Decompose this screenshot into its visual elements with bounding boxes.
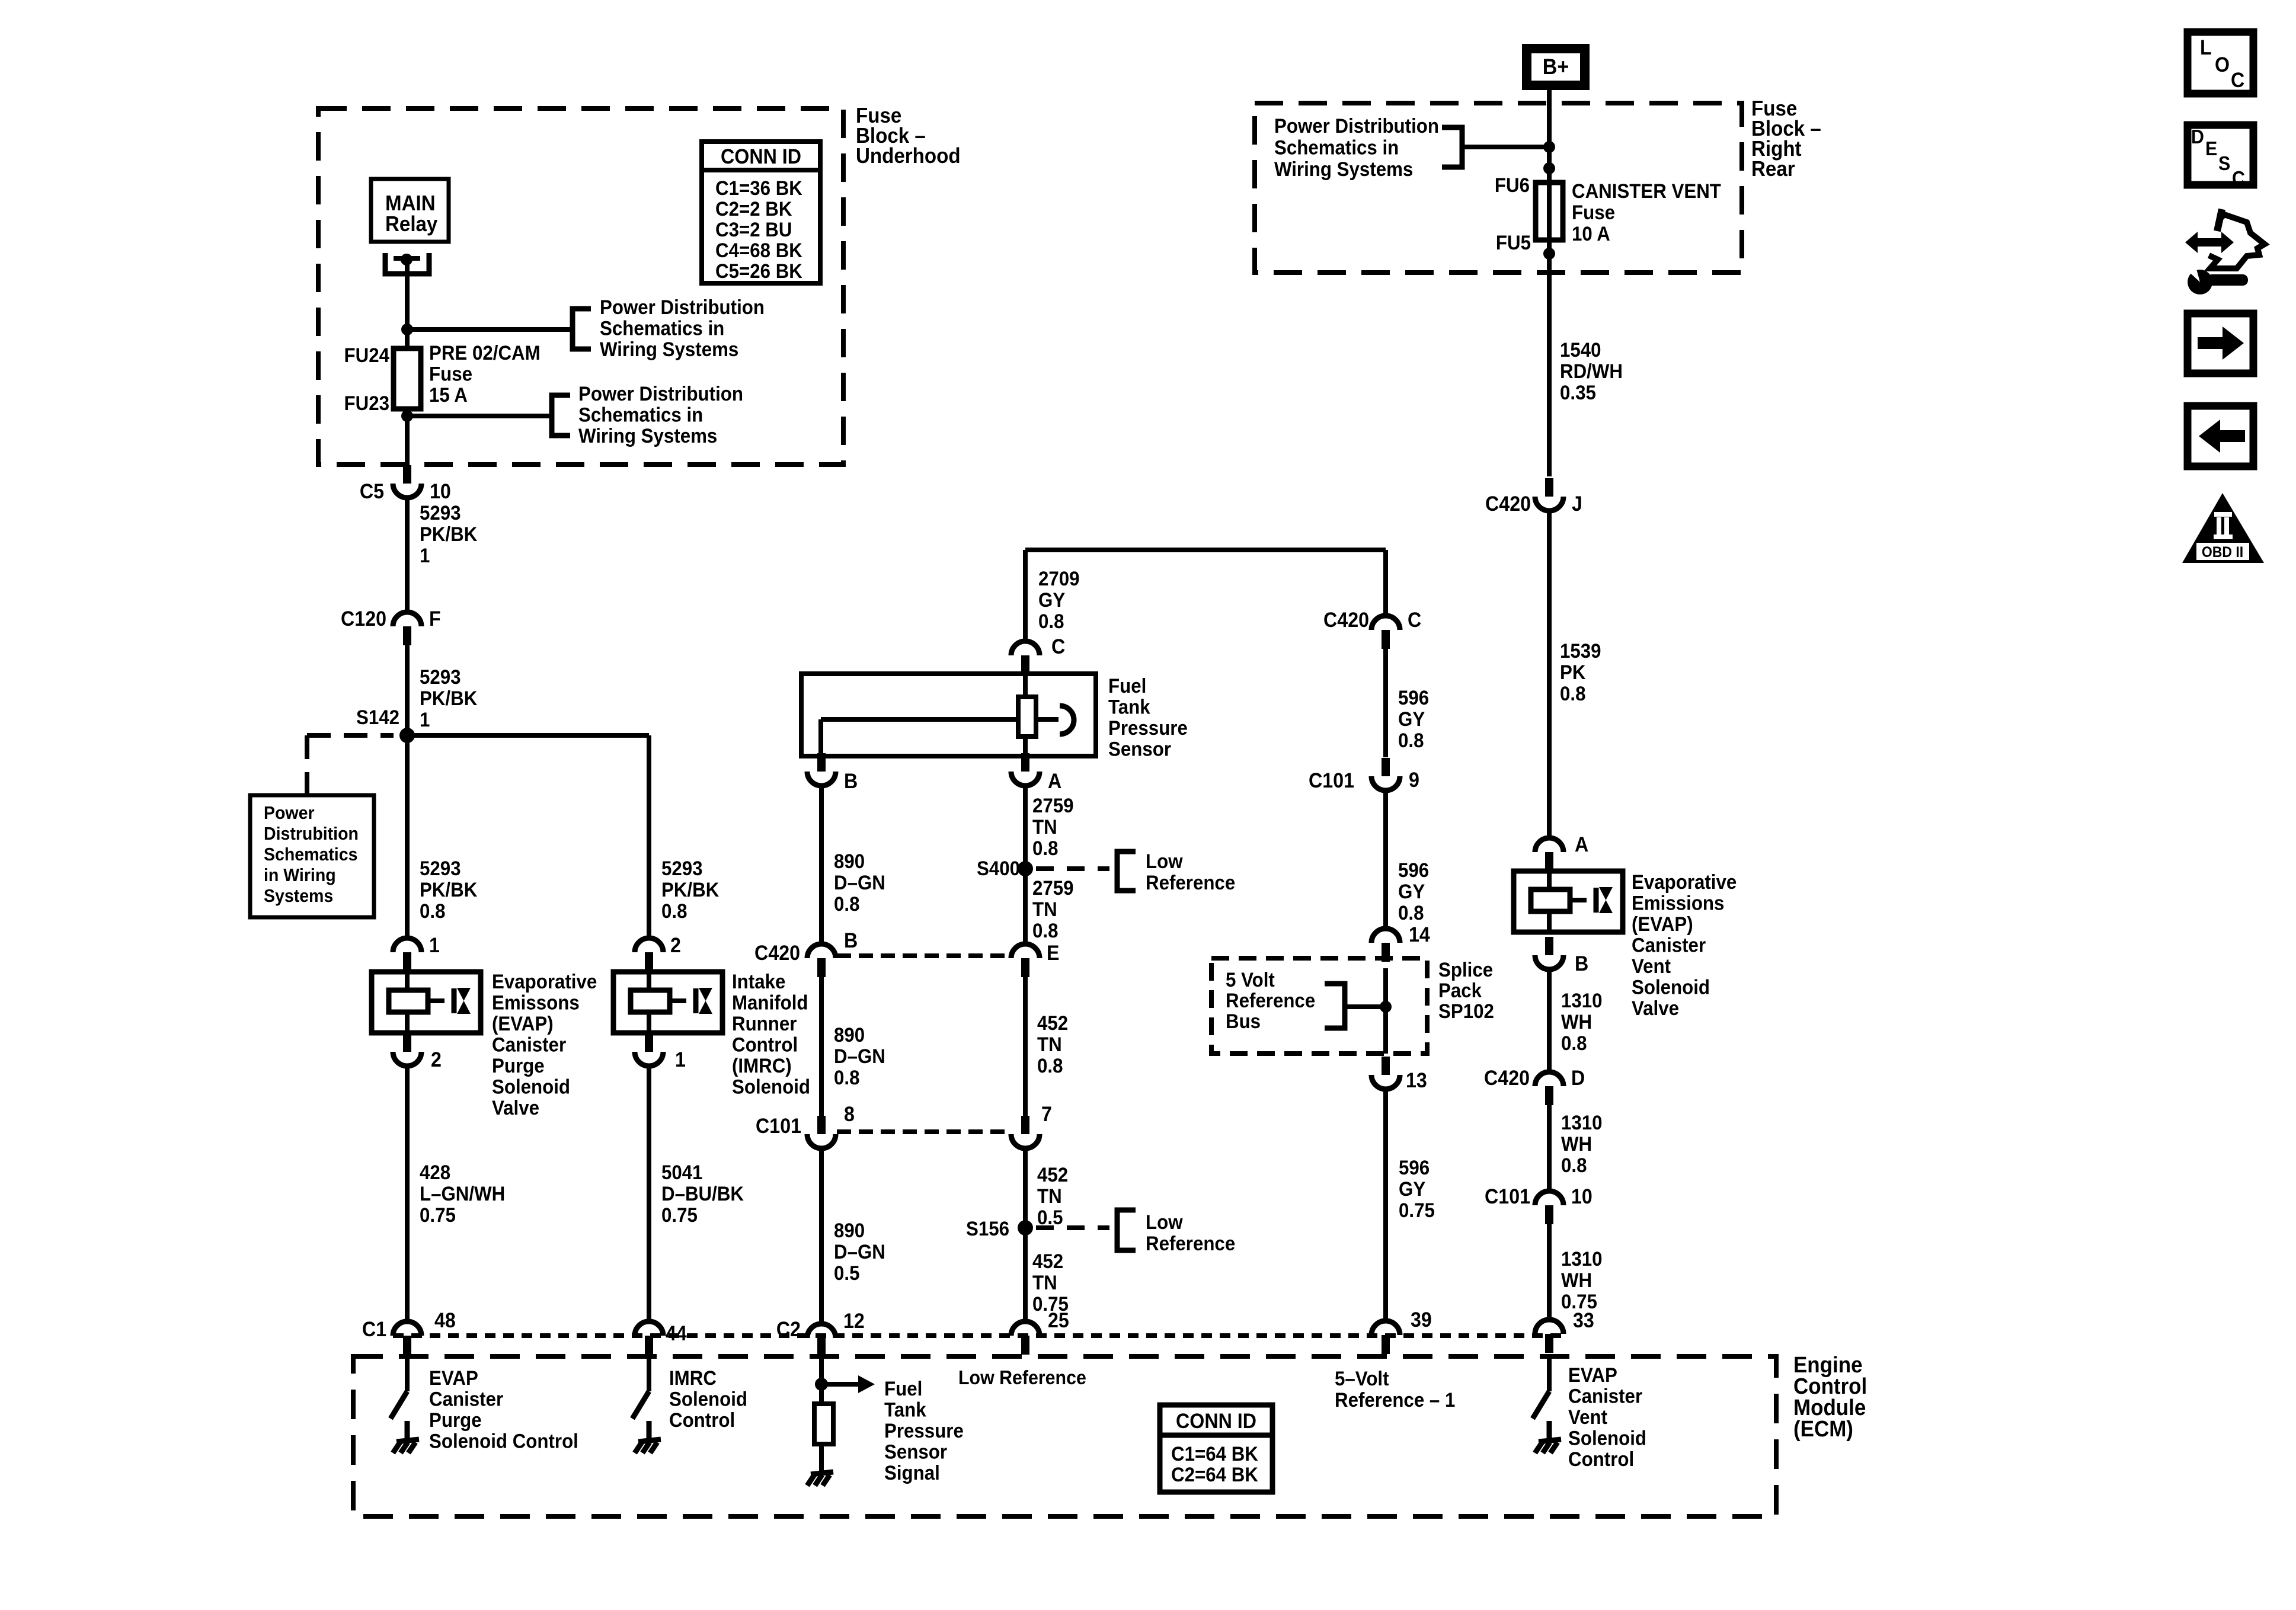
connector C120 pin F <box>393 612 421 626</box>
svg-text:0.8: 0.8 <box>1561 1154 1587 1177</box>
svg-text:0.8: 0.8 <box>1032 837 1058 860</box>
svg-text:Solenoid: Solenoid <box>732 1075 810 1098</box>
svg-text:C: C <box>1408 609 1421 632</box>
svg-text:CONN ID: CONN ID <box>721 146 801 169</box>
callout bracket 2 <box>552 395 570 436</box>
svg-text:PRE 02/CAM: PRE 02/CAM <box>429 341 541 364</box>
svg-text:0.35: 0.35 <box>1560 381 1596 404</box>
svg-text:L: L <box>2200 37 2212 60</box>
svg-text:0.8: 0.8 <box>1560 682 1585 705</box>
svg-text:FU5: FU5 <box>1496 231 1531 254</box>
svg-text:CANISTER VENT: CANISTER VENT <box>1572 180 1721 203</box>
connector FTPS pin C <box>1011 641 1040 655</box>
connector C420 pin C <box>1371 616 1400 630</box>
svg-text:Schematics: Schematics <box>264 844 357 865</box>
svg-text:5–Volt: 5–Volt <box>1335 1367 1389 1390</box>
MAIN relay box <box>371 179 449 242</box>
svg-text:Bus: Bus <box>1226 1010 1261 1033</box>
svg-text:D–BU/BK: D–BU/BK <box>661 1182 744 1205</box>
fuel tank pressure sensor box <box>801 674 1096 756</box>
svg-text:0.8: 0.8 <box>834 1066 859 1089</box>
svg-text:Evaporative: Evaporative <box>1632 870 1737 894</box>
svg-text:WH: WH <box>1561 1269 1592 1292</box>
svg-text:EVAP: EVAP <box>429 1366 478 1390</box>
svg-text:452: 452 <box>1037 1012 1068 1035</box>
svg-text:C: C <box>1051 636 1065 659</box>
wire: relay to fuse FU24 <box>405 260 410 350</box>
svg-text:GY: GY <box>1399 1177 1425 1201</box>
svg-text:Pressure: Pressure <box>884 1419 964 1442</box>
svg-text:Tank: Tank <box>884 1398 926 1421</box>
connector C2 pin 12 <box>807 1324 836 1338</box>
svg-text:(EVAP): (EVAP) <box>492 1012 554 1035</box>
svg-text:TN: TN <box>1032 1271 1057 1294</box>
svg-text:Reference: Reference <box>1226 989 1315 1012</box>
EVAP canister vent solenoid valve <box>1514 871 1623 932</box>
svg-text:C4=68 BK: C4=68 BK <box>715 239 802 262</box>
wire down to FTPS C <box>1023 550 1028 641</box>
svg-text:C1=36 BK: C1=36 BK <box>715 177 802 200</box>
connector pin 39 <box>1371 1321 1400 1335</box>
svg-text:C120: C120 <box>341 608 386 631</box>
svg-text:D: D <box>1571 1067 1585 1090</box>
svg-text:PK/BK: PK/BK <box>420 878 478 901</box>
svg-text:0.8: 0.8 <box>1398 901 1424 924</box>
ECM dashed box <box>353 1356 1776 1516</box>
junction dot 1 <box>1543 141 1555 153</box>
svg-text:14: 14 <box>1409 924 1430 947</box>
svg-text:Runner: Runner <box>732 1012 797 1035</box>
svg-text:Schematics in: Schematics in <box>600 316 724 340</box>
svg-text:5293: 5293 <box>420 665 461 689</box>
svg-text:Wiring Systems: Wiring Systems <box>600 338 738 361</box>
svg-text:Sensor: Sensor <box>1108 737 1171 760</box>
svg-text:C101: C101 <box>1485 1186 1530 1209</box>
connector FTPS pin B <box>817 753 826 772</box>
svg-text:IMRC: IMRC <box>669 1366 717 1390</box>
wire resistor to ground <box>819 1444 824 1472</box>
svg-text:596: 596 <box>1399 1156 1430 1179</box>
svg-text:Signal: Signal <box>884 1461 940 1484</box>
wire C101 8 to C2 12 <box>819 1148 824 1324</box>
connector purge solenoid pin 1 <box>393 938 421 952</box>
svg-text:FU24: FU24 <box>344 344 389 367</box>
fuse PRE O2/CAM <box>405 348 410 409</box>
svg-text:Relay: Relay <box>385 213 438 236</box>
svg-text:O: O <box>2215 54 2230 77</box>
svg-text:RD/WH: RD/WH <box>1560 360 1623 383</box>
wire IMRC to ECM 44 <box>647 1066 651 1322</box>
svg-text:5041: 5041 <box>661 1161 703 1184</box>
svg-text:5293: 5293 <box>420 501 461 524</box>
svg-text:J: J <box>1572 493 1582 516</box>
ECM driver switch EVAP vent <box>1547 1357 1552 1391</box>
svg-text:Power Distribution: Power Distribution <box>600 296 765 319</box>
svg-text:PK/BK: PK/BK <box>661 878 720 901</box>
svg-text:TN: TN <box>1032 815 1057 838</box>
svg-text:1310: 1310 <box>1561 989 1603 1012</box>
connector IMRC solenoid pin 1 <box>645 1033 653 1052</box>
svg-text:890: 890 <box>834 1219 865 1242</box>
svg-text:D–GN: D–GN <box>834 871 885 894</box>
dashed link C101 8-7 <box>837 1129 1010 1134</box>
svg-text:0.8: 0.8 <box>1032 919 1058 942</box>
svg-text:9: 9 <box>1409 769 1419 792</box>
connector vent solenoid pin B <box>1545 937 1553 955</box>
svg-text:Splice: Splice <box>1438 958 1493 981</box>
ECM driver switch EVAP purge <box>405 1357 410 1391</box>
wire E to 7 <box>1023 977 1028 1116</box>
svg-text:Solenoid: Solenoid <box>492 1075 570 1098</box>
IMRC solenoid <box>613 972 722 1033</box>
svg-text:OBD II: OBD II <box>2202 544 2243 561</box>
svg-text:F: F <box>429 608 441 631</box>
svg-text:SP102: SP102 <box>1438 1000 1494 1023</box>
svg-text:1: 1 <box>420 544 430 567</box>
svg-text:Fuel: Fuel <box>1108 674 1146 697</box>
svg-text:12: 12 <box>843 1310 865 1333</box>
wire stub 2 <box>407 414 552 418</box>
svg-text:D: D <box>2191 126 2204 148</box>
svg-text:C420: C420 <box>1323 609 1369 632</box>
CONN ID table (ECM) <box>1160 1405 1272 1492</box>
icon back arrow box <box>2188 406 2253 466</box>
svg-text:2: 2 <box>431 1049 442 1072</box>
svg-text:S400: S400 <box>977 857 1020 880</box>
svg-text:Power: Power <box>264 803 315 823</box>
wire FU5 to C420 J <box>1547 240 1552 476</box>
svg-text:Canister: Canister <box>492 1033 566 1056</box>
wire top horizontal FTPS-C420 <box>1025 548 1386 552</box>
svg-text:E: E <box>1047 942 1059 965</box>
svg-text:15 A: 15 A <box>429 383 468 406</box>
wire J to EVAP vent solenoid <box>1547 511 1552 838</box>
svg-text:C101: C101 <box>756 1115 801 1138</box>
svg-text:0.8: 0.8 <box>420 900 445 923</box>
svg-text:GY: GY <box>1038 588 1065 612</box>
splice S400 <box>1018 861 1033 876</box>
svg-text:10: 10 <box>430 481 451 504</box>
CONN ID table (underhood) <box>702 142 820 283</box>
svg-text:Valve: Valve <box>1632 997 1679 1020</box>
svg-text:452: 452 <box>1037 1163 1068 1186</box>
svg-text:PK/BK: PK/BK <box>420 523 478 546</box>
svg-text:Control: Control <box>669 1409 735 1432</box>
svg-text:890: 890 <box>834 850 865 873</box>
connector C101 pin 10 <box>1535 1191 1563 1205</box>
svg-text:Evaporative: Evaporative <box>492 970 597 993</box>
svg-text:Underhood: Underhood <box>856 145 961 168</box>
svg-text:0.8: 0.8 <box>1037 1054 1063 1077</box>
connector vent solenoid pin A <box>1535 838 1563 852</box>
svg-text:(IMRC): (IMRC) <box>732 1054 792 1077</box>
wire stub 1 <box>407 327 573 332</box>
svg-text:TN: TN <box>1037 1033 1062 1056</box>
ECM driver switch IMRC <box>647 1357 651 1391</box>
arrow line <box>821 1382 858 1387</box>
svg-text:EVAP: EVAP <box>1568 1363 1617 1387</box>
svg-text:0.8: 0.8 <box>1038 610 1064 633</box>
svg-text:Systems: Systems <box>264 886 333 906</box>
svg-text:596: 596 <box>1398 859 1429 882</box>
svg-text:D–GN: D–GN <box>834 1240 885 1263</box>
junction SP102 <box>1380 1001 1392 1013</box>
svg-text:33: 33 <box>1573 1310 1594 1333</box>
connector pin 33 <box>1535 1320 1563 1334</box>
svg-text:MAIN: MAIN <box>385 192 436 216</box>
svg-text:Emissions: Emissions <box>1632 891 1724 914</box>
svg-text:Reference: Reference <box>1146 871 1235 894</box>
junction arrow <box>815 1378 828 1391</box>
callout bracket right rear <box>1442 127 1462 167</box>
connector pin 25 <box>1011 1321 1040 1336</box>
svg-text:Manifold: Manifold <box>732 991 808 1014</box>
wire FTPS B to C420 B <box>819 786 824 943</box>
svg-text:PK/BK: PK/BK <box>420 687 478 710</box>
svg-text:C420: C420 <box>754 942 800 965</box>
svg-text:Sensor: Sensor <box>884 1440 947 1463</box>
svg-text:Low: Low <box>1146 1211 1183 1234</box>
svg-text:5293: 5293 <box>661 857 703 880</box>
svg-text:(EVAP): (EVAP) <box>1632 913 1693 936</box>
svg-text:Wiring Systems: Wiring Systems <box>1274 158 1413 181</box>
icon LOC box <box>2188 32 2253 94</box>
connector C1 pin 48 <box>393 1321 421 1336</box>
connector C101 pin 9 <box>1382 758 1390 776</box>
svg-text:Low: Low <box>1146 850 1183 873</box>
svg-text:Solenoid: Solenoid <box>669 1387 747 1410</box>
connector C101 pin 8 <box>817 1116 826 1134</box>
svg-text:452: 452 <box>1032 1250 1063 1273</box>
connector IMRC solenoid pin 2 <box>635 938 663 952</box>
svg-text:Purge: Purge <box>429 1409 482 1432</box>
connector C420 pin E <box>1011 944 1040 958</box>
svg-text:0.8: 0.8 <box>1561 1032 1587 1055</box>
svg-text:0.75: 0.75 <box>1399 1199 1435 1222</box>
svg-text:GY: GY <box>1398 708 1425 731</box>
fuse block underhood dashed box <box>318 108 843 465</box>
wire bracket to main <box>1462 145 1549 149</box>
svg-text:2759: 2759 <box>1032 794 1074 817</box>
svg-text:L–GN/WH: L–GN/WH <box>420 1182 505 1205</box>
wire FTPS A to E <box>1023 786 1028 943</box>
wire C101 9 to 14 <box>1383 790 1388 929</box>
svg-text:0.5: 0.5 <box>834 1262 859 1285</box>
svg-text:Fuel: Fuel <box>884 1377 922 1400</box>
wire vent B to C420 D <box>1547 969 1552 1072</box>
svg-text:39: 39 <box>1411 1309 1432 1332</box>
svg-text:(ECM): (ECM) <box>1793 1416 1853 1442</box>
svg-text:C420: C420 <box>1485 493 1531 516</box>
resistor inside ECM <box>814 1404 833 1444</box>
connector pin 44 <box>635 1321 663 1336</box>
wire C420B to C101 8 <box>819 977 824 1116</box>
svg-text:0.8: 0.8 <box>661 900 687 923</box>
svg-text:B: B <box>1575 953 1588 976</box>
connector pin 14 <box>1371 929 1400 943</box>
svg-text:48: 48 <box>434 1310 456 1333</box>
svg-text:WH: WH <box>1561 1132 1592 1156</box>
wire C101 10 to 33 <box>1547 1224 1552 1320</box>
svg-text:C: C <box>2231 69 2244 92</box>
connector pin 13 <box>1382 1057 1390 1075</box>
svg-text:0.8: 0.8 <box>834 892 859 916</box>
connector C101 pin 7 <box>1021 1116 1029 1134</box>
bracket low reference S156 <box>1117 1210 1136 1250</box>
svg-text:0.5: 0.5 <box>1037 1206 1063 1229</box>
wire S142 to IMRC branch <box>407 733 649 738</box>
wire 13 to 39 <box>1383 1089 1388 1321</box>
svg-text:1539: 1539 <box>1560 639 1601 662</box>
splice S142 <box>399 728 415 743</box>
splice S156 <box>1018 1220 1033 1235</box>
svg-text:Power Distribution: Power Distribution <box>578 382 743 405</box>
wire D to C101 10 <box>1547 1105 1552 1191</box>
svg-text:Control: Control <box>1568 1448 1634 1471</box>
connector C420 pin B <box>807 944 836 958</box>
svg-text:0.75: 0.75 <box>420 1204 456 1227</box>
svg-text:S156: S156 <box>966 1217 1009 1240</box>
svg-text:10 A: 10 A <box>1572 222 1610 245</box>
svg-text:1: 1 <box>429 934 440 958</box>
svg-text:13: 13 <box>1406 1070 1427 1093</box>
svg-text:1310: 1310 <box>1561 1247 1603 1270</box>
svg-text:Purge: Purge <box>492 1054 545 1077</box>
svg-text:Reference – 1: Reference – 1 <box>1335 1388 1455 1411</box>
wire B+ to FU6 <box>1547 90 1552 183</box>
svg-text:Canister: Canister <box>1632 933 1706 956</box>
svg-text:Pack: Pack <box>1438 979 1482 1002</box>
svg-text:WH: WH <box>1561 1010 1592 1033</box>
wire fuse to C5 <box>405 409 410 466</box>
svg-text:B: B <box>844 930 858 953</box>
svg-text:2709: 2709 <box>1038 567 1080 590</box>
junction dot below fuse <box>1543 248 1555 260</box>
svg-text:FU6: FU6 <box>1495 174 1530 197</box>
svg-text:25: 25 <box>1048 1310 1069 1333</box>
wire S142 to IMRC solenoid <box>647 735 651 939</box>
svg-text:Valve: Valve <box>492 1096 539 1119</box>
svg-text:C2=2 BK: C2=2 BK <box>715 197 792 220</box>
harness dotted line at ECM connector row <box>393 1333 1563 1338</box>
fuse block right rear dashed box <box>1255 103 1742 273</box>
svg-text:Intake: Intake <box>732 970 785 993</box>
svg-text:8: 8 <box>844 1103 855 1126</box>
bracket low reference S400 <box>1117 852 1136 891</box>
svg-text:Solenoid: Solenoid <box>1568 1426 1646 1449</box>
svg-text:Canister: Canister <box>1568 1384 1642 1407</box>
svg-text:Tank: Tank <box>1108 695 1150 718</box>
wire purge solenoid to ECM 48 <box>405 1066 410 1322</box>
svg-text:Emissons: Emissons <box>492 991 580 1014</box>
icon jumper harness with arrows and wrench <box>2185 232 2234 253</box>
svg-text:C5: C5 <box>360 481 384 504</box>
svg-text:Vent: Vent <box>1632 955 1671 978</box>
svg-text:1310: 1310 <box>1561 1111 1603 1134</box>
svg-text:TN: TN <box>1037 1185 1062 1208</box>
connector C420 pin J <box>1545 478 1553 497</box>
svg-text:D–GN: D–GN <box>834 1045 885 1068</box>
svg-text:C3=2 BU: C3=2 BU <box>715 218 792 241</box>
svg-text:GY: GY <box>1398 880 1425 903</box>
junction to power distribution stub 2 <box>401 410 413 422</box>
connector C5 pin 10 <box>403 465 411 484</box>
svg-text:FU23: FU23 <box>344 392 389 415</box>
wire C5 to C120 <box>405 498 410 612</box>
svg-text:Rear: Rear <box>1751 158 1795 181</box>
dashed stub S142 left <box>307 733 394 738</box>
svg-text:C5=26 BK: C5=26 BK <box>715 260 802 283</box>
fuse CANISTER VENT <box>1536 183 1563 240</box>
svg-text:S142: S142 <box>356 706 399 729</box>
svg-text:Reference: Reference <box>1146 1232 1235 1255</box>
svg-text:Control: Control <box>732 1033 798 1056</box>
svg-text:428: 428 <box>420 1161 450 1184</box>
svg-text:Fuse: Fuse <box>429 362 472 385</box>
dashed stub S156 <box>1036 1225 1109 1230</box>
icon OBD II triangle <box>2182 493 2264 563</box>
svg-text:A: A <box>1575 834 1588 857</box>
svg-text:2: 2 <box>670 934 681 958</box>
wire 7 to 25 <box>1023 1148 1028 1321</box>
svg-text:TN: TN <box>1032 898 1057 921</box>
svg-text:Fuse: Fuse <box>1572 201 1615 224</box>
connector FTPS pin A <box>1021 753 1029 772</box>
EVAP canister purge solenoid valve <box>372 972 481 1033</box>
svg-text:B+: B+ <box>1543 55 1569 79</box>
Power Distrubition box <box>250 795 374 917</box>
ground FTPS signal <box>811 1472 833 1474</box>
svg-text:PK: PK <box>1560 661 1586 684</box>
svg-text:E: E <box>2205 137 2217 159</box>
dashed stub down to box <box>305 735 309 795</box>
relay contact symbol <box>385 253 429 274</box>
connector C420 pin D <box>1535 1072 1563 1086</box>
svg-text:0.8: 0.8 <box>1398 729 1424 752</box>
dashed stub S400 <box>1036 866 1109 871</box>
svg-text:Wiring Systems: Wiring Systems <box>578 424 717 447</box>
wire C120 to EVAP purge solenoid <box>405 645 410 939</box>
svg-text:5 Volt: 5 Volt <box>1226 968 1275 991</box>
B+ battery feed symbol <box>1527 49 1585 85</box>
junction dot 2 <box>1543 162 1555 174</box>
svg-text:Schematics in: Schematics in <box>1274 136 1399 159</box>
svg-text:C2=64 BK: C2=64 BK <box>1171 1463 1258 1486</box>
svg-text:Solenoid: Solenoid <box>1632 975 1710 998</box>
svg-text:Distrubition: Distrubition <box>264 824 359 844</box>
svg-text:C1=64 BK: C1=64 BK <box>1171 1442 1258 1465</box>
svg-text:Power Distribution: Power Distribution <box>1274 114 1439 137</box>
callout bracket 1 <box>573 309 591 349</box>
icon forward arrow box <box>2188 313 2253 373</box>
wire C420C to C101 9 <box>1383 649 1388 757</box>
svg-text:Vent: Vent <box>1568 1406 1607 1429</box>
dashed link C420 B-E <box>837 953 1010 958</box>
svg-text:Low Reference: Low Reference <box>958 1366 1086 1388</box>
bracket 5V ref bus <box>1325 984 1345 1028</box>
junction to power distribution stub 1 <box>401 324 413 335</box>
svg-text:A: A <box>1048 770 1061 793</box>
svg-text:B: B <box>844 770 858 793</box>
svg-text:1: 1 <box>675 1049 686 1072</box>
connector purge solenoid pin 2 <box>403 1033 411 1052</box>
svg-text:C420: C420 <box>1484 1067 1530 1090</box>
wire bracket to SP102 <box>1345 1004 1386 1009</box>
svg-text:1: 1 <box>420 708 430 731</box>
svg-text:C: C <box>2232 167 2245 189</box>
svg-text:C101: C101 <box>1309 770 1354 793</box>
svg-text:Canister: Canister <box>429 1387 503 1410</box>
